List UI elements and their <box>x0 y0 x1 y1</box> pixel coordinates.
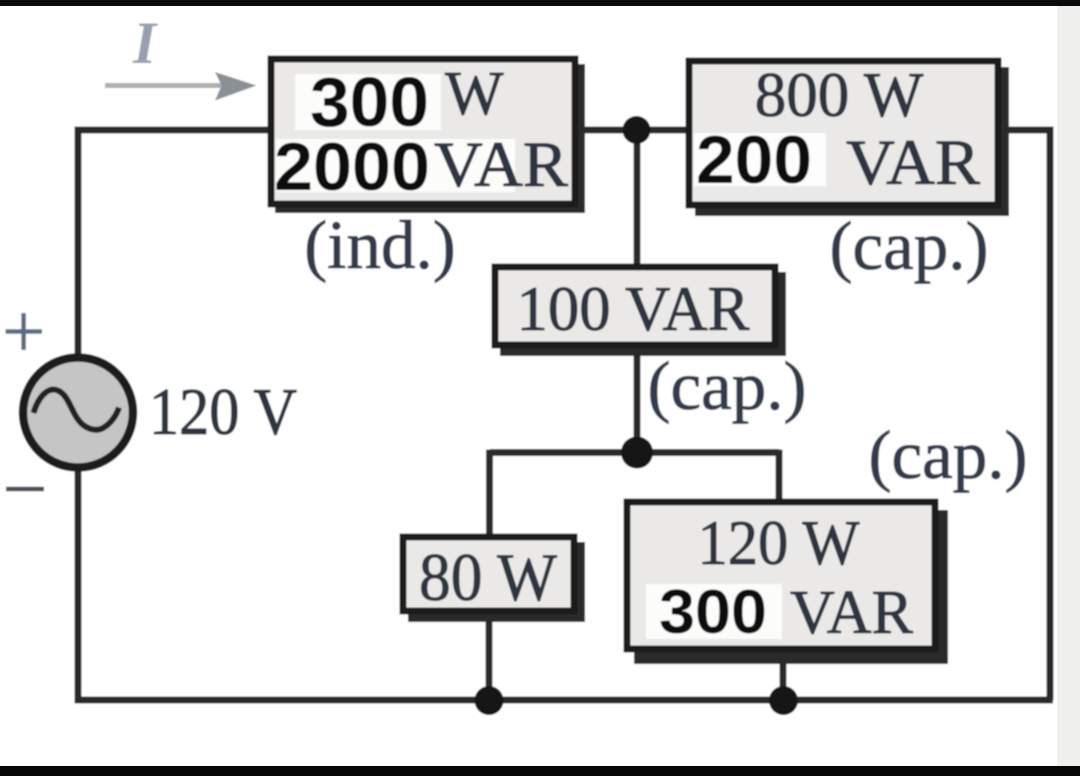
page edge strip right <box>1057 0 1080 776</box>
top border bar <box>0 0 1080 6</box>
svg-text:300: 300 <box>659 578 767 647</box>
svg-text:200: 200 <box>696 122 812 198</box>
svg-text:80 W: 80 W <box>419 539 558 615</box>
svg-text:120 W: 120 W <box>698 507 861 578</box>
bottom border bar <box>0 766 1080 776</box>
wire left vertical lower <box>75 469 82 700</box>
wire mid vertical upper <box>634 130 641 267</box>
load box P4 80W <box>403 537 574 611</box>
load box P5 120W 300VAR shadow <box>634 510 948 664</box>
minus terminal sign <box>6 487 44 492</box>
svg-text:VAR: VAR <box>846 127 981 199</box>
wire branch 120W lower <box>780 650 787 700</box>
white patch behind 200 <box>694 133 826 186</box>
load box P2 800W 200VAR <box>689 61 998 205</box>
wire branch 80W lower <box>486 612 493 700</box>
junction node bottom left <box>475 686 504 715</box>
svg-text:I: I <box>132 10 159 76</box>
svg-text:(cap.): (cap.) <box>830 208 989 284</box>
current arrow head <box>215 72 257 101</box>
plus terminal sign <box>6 313 43 350</box>
wire top right to right vertical <box>999 130 1050 700</box>
wire mid horizontal <box>490 449 779 456</box>
junction node top (between 300W and 800W boxes) <box>623 116 651 144</box>
svg-text:W: W <box>445 60 504 128</box>
wire branch 80W upper <box>486 450 493 538</box>
wire mid vertical lower <box>634 346 641 453</box>
load box P1 300W 2000VAR <box>271 59 575 204</box>
white patch behind 2000 <box>276 139 515 192</box>
svg-text:VAR: VAR <box>434 129 569 201</box>
svg-text:(cap.): (cap.) <box>648 348 807 424</box>
svg-text:800 W: 800 W <box>755 60 924 130</box>
load box P2 800W 200VAR shadow <box>695 67 1009 216</box>
load box Q3 100VAR shadow <box>500 272 786 356</box>
white patch behind 300 <box>295 74 441 130</box>
current arrow shaft <box>105 83 222 88</box>
junction node bottom right <box>769 686 798 715</box>
load box P4 80W shadow <box>408 542 585 622</box>
svg-text:2000: 2000 <box>274 129 430 205</box>
junction node middle <box>621 437 653 469</box>
load box P1 300W 2000VAR shadow <box>275 64 585 213</box>
white patch behind 300 (box P5) <box>646 584 782 639</box>
svg-text:100 VAR: 100 VAR <box>517 273 750 344</box>
svg-text:120 V: 120 V <box>149 375 297 449</box>
wire bottom horizontal <box>75 697 1054 704</box>
wire left vertical + top horizontal <box>78 130 270 358</box>
AC source sine wave <box>34 390 120 430</box>
svg-text:(cap.): (cap.) <box>869 417 1028 493</box>
wire branch 120W upper <box>776 450 783 503</box>
AC source circle <box>23 358 133 468</box>
load box P5 120W 300VAR <box>627 502 935 649</box>
svg-text:VAR: VAR <box>790 579 914 647</box>
wire top middle segment <box>578 127 688 134</box>
load box Q3 100VAR <box>495 267 775 345</box>
svg-text:(ind.): (ind.) <box>304 207 455 283</box>
